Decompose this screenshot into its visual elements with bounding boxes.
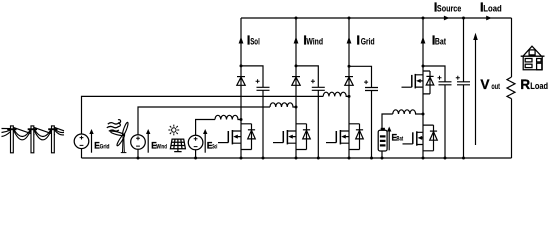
icon wind turbine (110, 122, 129, 153)
wire top bus (241, 17, 512, 19)
wire branch lead Bat (422, 18, 424, 158)
svg-text:Bat: Bat (435, 37, 446, 47)
svg-text:R: R (520, 77, 530, 92)
label IWind (303, 32, 323, 47)
svg-text:Sol: Sol (212, 145, 217, 151)
svg-text:Sol: Sol (250, 36, 260, 46)
resistor RLoad zigzag (507, 77, 515, 99)
arrow IBat on lead (421, 37, 426, 44)
wire branch lead Wind (295, 18, 297, 158)
capacitor C-wind (296, 66, 325, 158)
mosfet Q-grid with body diode (326, 124, 363, 150)
arrow ESol (203, 129, 207, 153)
icon house load (521, 46, 545, 70)
battery EBat symbol (378, 128, 387, 151)
svg-text:Wind: Wind (306, 36, 323, 46)
capacitor C-sol (241, 66, 270, 158)
arrow ILoad on bus (486, 16, 492, 21)
arrow EWind (146, 129, 150, 153)
svg-text:out: out (491, 81, 500, 91)
inductor L-grid (323, 92, 349, 96)
arrow EBat (387, 127, 391, 151)
wire EGrid source top + horizontal run (82, 96, 324, 134)
junction node dots (137, 17, 466, 160)
wire EWind source top + horizontal run (138, 107, 270, 135)
svg-text:Load: Load (530, 81, 548, 91)
icon sun (168, 125, 179, 136)
wire load branch bottom (511, 99, 513, 158)
label IGrid (356, 32, 374, 47)
mosfet Q-wind with body diode (273, 124, 310, 150)
arrow IGrid on lead (347, 37, 352, 44)
wire branch lead Sol (240, 18, 242, 158)
icon wind gusts (107, 120, 121, 132)
inductor L-wind (270, 103, 296, 107)
wire EBat top + horizontal run (382, 114, 393, 130)
mosfet Q-sol with body diode (218, 124, 255, 150)
arrow ISource on bus (444, 16, 450, 21)
arrow ISol on lead (239, 37, 244, 44)
inductor L-bat (393, 110, 423, 114)
capacitor C-grid (349, 66, 378, 158)
arrow IWind on lead (294, 37, 299, 44)
mosfet Q-bat-high with body diode (402, 71, 434, 94)
diode D-grid boost (345, 77, 353, 86)
wire ESol source top + horizontal run (196, 120, 215, 136)
wire EGrid bottom (81, 149, 83, 158)
arrow Vout sense (473, 33, 478, 145)
label IBat (432, 33, 446, 48)
voltage source EGrid circle (74, 134, 89, 149)
label EWind (151, 141, 167, 152)
voltage source EWind circle (131, 135, 146, 150)
wire EWind bottom (137, 149, 139, 158)
diode D-wind boost (292, 77, 300, 86)
svg-text:Grid: Grid (100, 145, 110, 151)
svg-text:V: V (480, 77, 490, 92)
svg-text:Load: Load (483, 4, 501, 14)
label ILoad (480, 0, 502, 15)
label ISource (434, 0, 462, 15)
inductor L-sol (215, 115, 241, 119)
diode D-sol boost (237, 77, 245, 86)
svg-text:Bat: Bat (397, 136, 404, 142)
wire load branch top (511, 18, 513, 77)
wire branch lead Grid (348, 18, 350, 158)
icon solar panel (170, 139, 185, 152)
capacitor C-bat (423, 66, 452, 158)
wire ESol bottom (195, 150, 197, 159)
wire EBat bottom (381, 151, 383, 158)
wire bottom rail (82, 157, 512, 159)
label RLoad (520, 77, 548, 92)
svg-text:Grid: Grid (361, 36, 375, 46)
svg-text:I: I (356, 32, 360, 47)
icon power grid transmission towers (2, 126, 65, 153)
svg-text:Wind: Wind (156, 145, 167, 151)
svg-text:Source: Source (437, 4, 461, 14)
label ESol (207, 141, 218, 152)
mosfet Q-bat-low with body diode (403, 125, 438, 151)
label EBat (392, 132, 404, 143)
label Vout (480, 77, 500, 92)
label ISol (247, 32, 260, 47)
capacitor C-bus (456, 18, 470, 158)
arrow EGrid (89, 129, 93, 153)
label EGrid (94, 141, 110, 152)
voltage source ESol circle (188, 135, 203, 150)
